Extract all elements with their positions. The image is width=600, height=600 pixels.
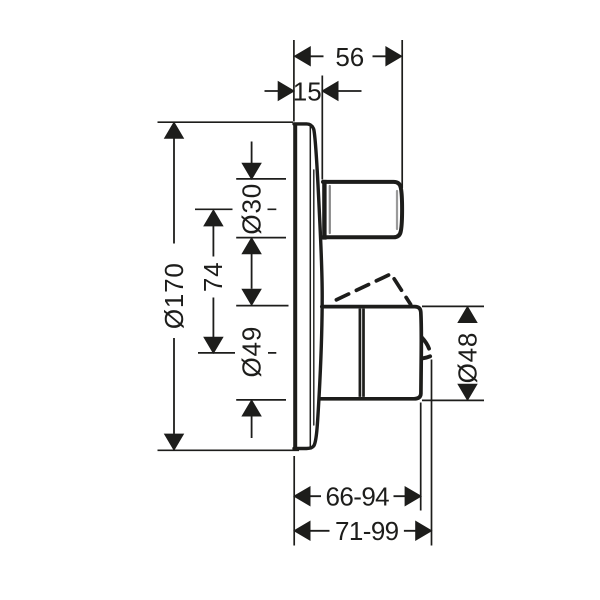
extension line bottom left (66-94 / 71-99) (293, 456, 295, 546)
dimension O30/O49 line (251, 142, 253, 439)
arrow 56 right (386, 47, 402, 65)
extension line handle top (right, O48) (422, 305, 484, 307)
arrow O170 bottom (165, 434, 183, 450)
dimension 74 line (212, 226, 214, 337)
extension line knob bottom (236, 237, 286, 239)
dimension O170 line (173, 138, 175, 434)
svg-text:Ø48: Ø48 (453, 332, 483, 384)
thermostat knob shading right (396, 191, 398, 229)
thermostat knob left edge (322, 180, 326, 240)
wall extension line (back of plate, top) (293, 40, 295, 122)
extension line plate bottom (left) (158, 449, 300, 451)
svg-text:Ø30: Ø30 (237, 183, 267, 235)
extension line handle center (74 dim) (198, 352, 276, 354)
extension line handle bottom (left) (236, 399, 286, 401)
arrow O48 top (458, 307, 476, 323)
extension line front of knob (56 dim) (401, 40, 403, 188)
extension line handle front (66-94) (420, 403, 422, 511)
plate inner thin line (309, 126, 311, 447)
plate inner thin line 2 (313, 170, 315, 425)
lever pin lower stroke (422, 356, 430, 358)
dimension 66-94 line (310, 495, 405, 497)
arrow 66-94 left (294, 487, 310, 505)
escutcheon plate back edge (293, 124, 297, 449)
handle sleeve separator (360, 309, 364, 397)
arrow 66-94 right (405, 487, 421, 505)
arrow O30 bottom (242, 238, 260, 254)
svg-text:Ø170: Ø170 (159, 262, 189, 329)
arrow O49 bottom (242, 400, 260, 416)
escutcheon plate outline (top, front dome, bottom) (294, 124, 322, 449)
lever pin upper stroke (422, 337, 429, 348)
arrow 71-99 left (294, 522, 310, 540)
extension line lever tip (71-99) (431, 360, 433, 546)
dimension 71-99 line (310, 530, 416, 532)
extension line handle bottom (right, O48) (422, 399, 484, 401)
arrow O30 top (242, 163, 260, 179)
arrow O49 top (242, 289, 260, 305)
thermostat knob body (323, 182, 402, 237)
dimension 56 line (310, 55, 386, 57)
arrow 74 bottom (204, 337, 222, 353)
thermostat knob shading left (329, 186, 331, 233)
arrow 74 top (204, 210, 222, 226)
svg-text:Ø49: Ø49 (237, 326, 267, 378)
svg-text:66-94: 66-94 (326, 481, 390, 511)
svg-text:71-99: 71-99 (335, 516, 399, 546)
handle body outline (320, 307, 421, 399)
extension line handle top (left) (236, 305, 288, 307)
svg-text:56: 56 (335, 42, 364, 72)
arrow O170 top (165, 123, 183, 139)
extension line plate top (left) (158, 121, 294, 123)
extension line knob center (74 dim) (195, 208, 276, 210)
extension line front of plate (15 dim) (321, 76, 323, 180)
dashed handle rotated position (336, 274, 410, 305)
arrow O48 bottom (458, 384, 476, 400)
arrow 56 left (295, 47, 311, 65)
svg-text:15: 15 (293, 77, 322, 107)
arrow 71-99 right (416, 522, 432, 540)
dimension 15 line (265, 90, 362, 92)
arrow 15 right (322, 82, 338, 100)
arrow 15 left (278, 82, 294, 100)
svg-text:74: 74 (198, 262, 228, 293)
extension line knob top (236, 178, 286, 180)
